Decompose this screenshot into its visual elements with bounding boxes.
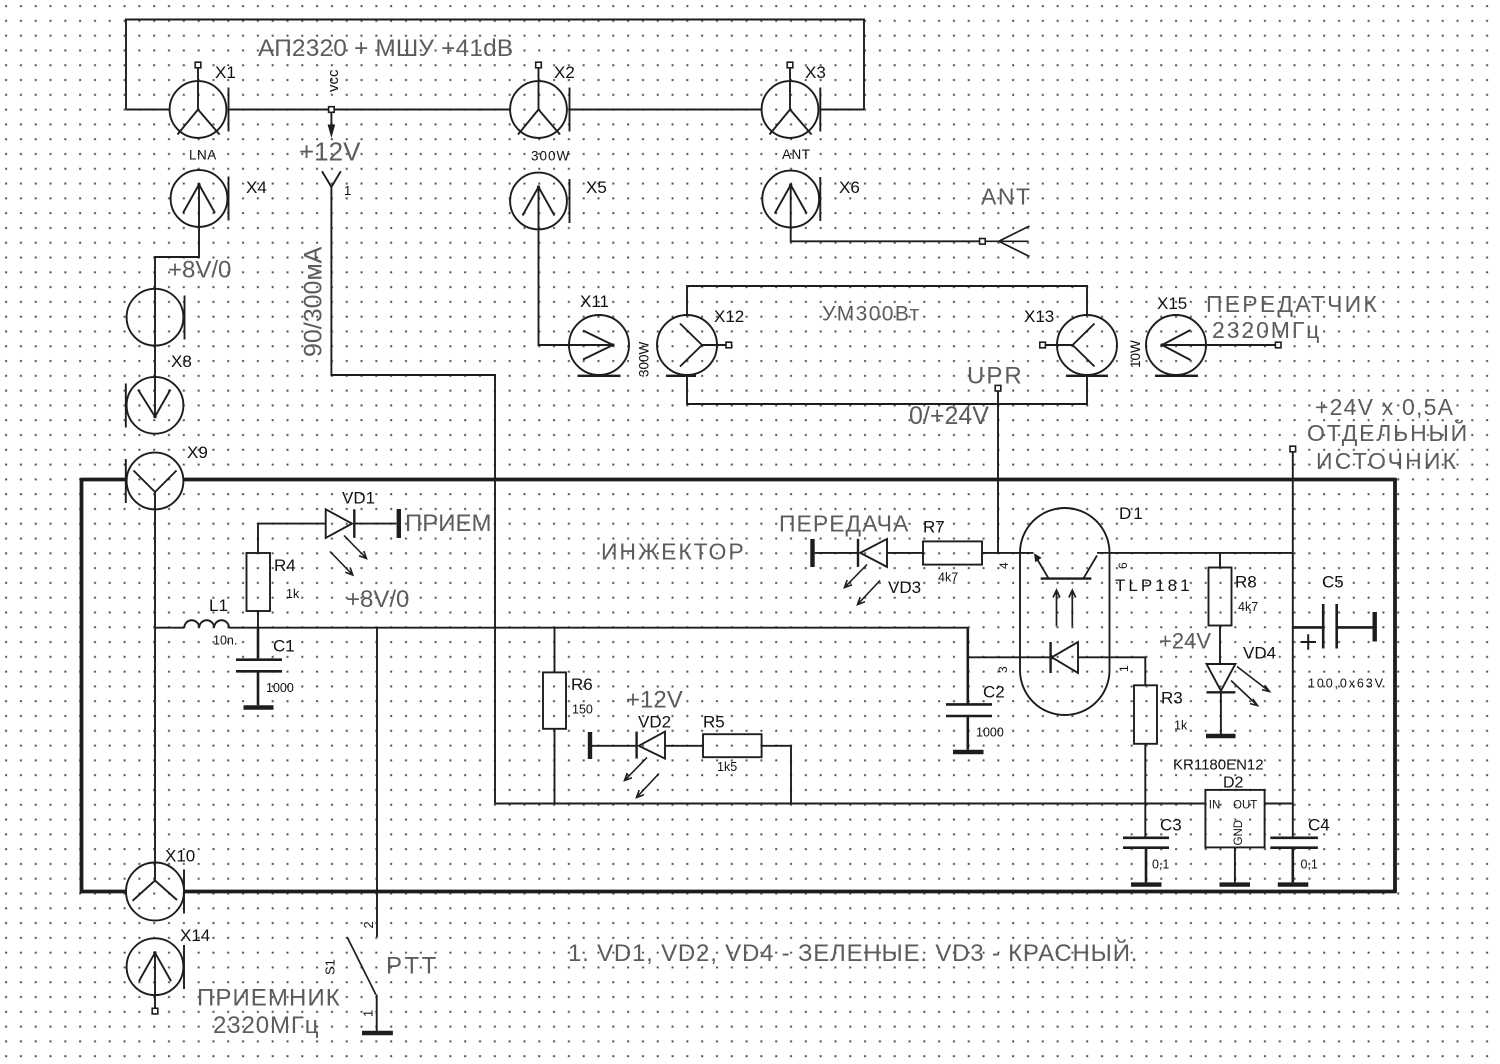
connector X4 <box>171 170 267 227</box>
svg-text:R3: R3 <box>1161 689 1183 708</box>
resistor R3 <box>1134 685 1188 744</box>
svg-text:10n.: 10n. <box>213 634 237 648</box>
amplifier box UM300 <box>687 286 1087 404</box>
svg-text:R4: R4 <box>274 556 296 575</box>
svg-text:C3: C3 <box>1160 816 1182 835</box>
main box injector <box>82 478 1396 894</box>
node 1 socket Y <box>322 171 351 200</box>
svg-text:VD3: VD3 <box>888 578 921 597</box>
connector X14 <box>127 926 211 1014</box>
diode VD1 <box>326 489 375 576</box>
svg-text:C4: C4 <box>1308 816 1330 835</box>
connector X8 <box>126 352 192 434</box>
svg-text:2320МГц: 2320МГц <box>213 1012 319 1039</box>
svg-text:X12: X12 <box>714 307 744 326</box>
svg-text:X4: X4 <box>246 178 267 197</box>
svg-text:2320МГц: 2320МГц <box>1212 317 1321 343</box>
svg-text:C5: C5 <box>1322 573 1344 592</box>
diode VD4 LED <box>1207 644 1277 735</box>
svg-text:0,1: 0,1 <box>1301 858 1318 872</box>
connector X10 <box>126 847 195 921</box>
svg-text:C1: C1 <box>273 637 295 656</box>
svg-text:1. VD1, VD2, VD4 - ЗЕЛЕНЫЕ. VD: 1. VD1, VD2, VD4 - ЗЕЛЕНЫЕ. VD3 - КРАСНЫ… <box>568 939 1138 967</box>
svg-text:ПРИЕМНИК: ПРИЕМНИК <box>197 985 341 1012</box>
svg-text:1: 1 <box>1117 665 1131 672</box>
svg-text:X6: X6 <box>839 178 860 197</box>
svg-text:X3: X3 <box>805 63 826 82</box>
switch S1 PTT <box>323 894 439 1032</box>
svg-text:X10: X10 <box>165 847 195 866</box>
svg-text:ИНЖЕКТОР: ИНЖЕКТОР <box>601 539 746 565</box>
capacitor C3 <box>1123 816 1182 883</box>
resistor R7 <box>923 518 982 585</box>
svg-text:R6: R6 <box>571 675 593 694</box>
connector X6 <box>762 171 859 228</box>
wire PTT tap <box>376 628 378 894</box>
diode VD3 <box>845 539 922 605</box>
wire <box>1110 552 1293 554</box>
svg-text:L1: L1 <box>209 596 228 615</box>
resistor R4 <box>247 553 300 611</box>
node +24V source label <box>1290 394 1469 474</box>
svg-text:X13: X13 <box>1024 307 1054 326</box>
svg-text:4k7: 4k7 <box>938 571 958 585</box>
wire <box>126 109 170 111</box>
connector X7 blank <box>127 289 185 346</box>
svg-text:LNA: LNA <box>189 148 217 163</box>
svg-text:300W: 300W <box>637 341 652 377</box>
connector X11 <box>569 292 652 377</box>
wire <box>258 524 396 552</box>
svg-text:1k: 1k <box>286 587 300 601</box>
svg-text:6: 6 <box>1116 562 1130 569</box>
svg-text:R8: R8 <box>1235 573 1257 592</box>
svg-text:X5: X5 <box>586 178 607 197</box>
svg-text:KR1180EN12: KR1180EN12 <box>1173 757 1264 774</box>
capacitor C1 <box>236 628 295 706</box>
svg-text:300W: 300W <box>531 149 570 164</box>
terminal PRIEM <box>399 509 492 538</box>
resistor R8 <box>1209 553 1259 664</box>
terminal PEREDACHA <box>779 511 909 568</box>
svg-text:X15: X15 <box>1157 294 1187 313</box>
connector X15 <box>1128 294 1281 376</box>
svg-text:X14: X14 <box>180 926 210 945</box>
wire <box>539 187 614 345</box>
wire <box>820 109 864 111</box>
resistor R6 <box>543 672 593 728</box>
wire top loop box <box>126 20 864 110</box>
wire <box>592 745 703 747</box>
connector X5 <box>510 173 607 230</box>
node VCC pin +12V arrow <box>299 69 361 167</box>
svg-text:VD4: VD4 <box>1243 644 1276 663</box>
wire <box>791 185 980 241</box>
svg-text:100,0x63V: 100,0x63V <box>1308 677 1385 691</box>
svg-text:+8V/0: +8V/0 <box>168 257 231 284</box>
node UPR <box>967 363 1024 392</box>
svg-text:TLP181: TLP181 <box>1115 576 1193 595</box>
wire <box>155 185 199 417</box>
connector X1 <box>170 62 236 162</box>
svg-text:+24V x 0,5A: +24V x 0,5A <box>1315 394 1454 420</box>
svg-text:ANT: ANT <box>981 184 1032 210</box>
svg-text:ПЕРЕДАТЧИК: ПЕРЕДАТЧИК <box>1206 291 1379 317</box>
capacitor C5 <box>1293 573 1385 691</box>
svg-text:90/300мА: 90/300мА <box>300 246 328 357</box>
svg-text:OUT: OUT <box>1233 800 1257 812</box>
wire <box>229 109 329 111</box>
svg-text:GND: GND <box>1233 820 1245 846</box>
ground <box>1206 734 1236 738</box>
svg-text:150: 150 <box>572 703 593 717</box>
wire UPR <box>997 391 999 553</box>
svg-text:+8V/0: +8V/0 <box>346 586 409 613</box>
svg-text:vcc: vcc <box>325 69 342 92</box>
wire bottom +12V <box>495 803 1205 805</box>
svg-text:4: 4 <box>997 562 1011 569</box>
svg-text:4k7: 4k7 <box>1238 600 1258 614</box>
svg-text:R5: R5 <box>703 713 725 732</box>
svg-text:ANT: ANT <box>782 147 811 162</box>
svg-text:S1: S1 <box>323 959 338 975</box>
svg-text:1000: 1000 <box>976 726 1004 740</box>
svg-text:1: 1 <box>344 183 351 198</box>
svg-text:X9: X9 <box>187 443 208 462</box>
svg-text:VD2: VD2 <box>638 713 671 732</box>
svg-text:УМ300Вт: УМ300Вт <box>822 303 921 326</box>
svg-text:+12V: +12V <box>299 137 361 167</box>
ground <box>362 1031 393 1035</box>
wire <box>334 109 511 111</box>
svg-text:C2: C2 <box>983 683 1005 702</box>
ground <box>1220 882 1251 886</box>
svg-text:VD1: VD1 <box>342 489 375 508</box>
svg-text:IN: IN <box>1209 800 1221 812</box>
wire <box>815 552 923 554</box>
ground <box>1278 882 1309 886</box>
svg-text:0/+24V: 0/+24V <box>909 402 989 430</box>
svg-text:ПЕРЕДАЧА: ПЕРЕДАЧА <box>779 511 909 537</box>
wire <box>554 628 556 804</box>
capacitor C2 <box>946 628 1005 750</box>
terminal C5 <box>1372 612 1376 642</box>
connector X3 <box>762 62 826 162</box>
capacitor C4 <box>1270 816 1329 883</box>
connector X13 <box>1024 307 1117 376</box>
svg-text:1k: 1k <box>1174 719 1188 733</box>
svg-text:ИСТОЧНИК: ИСТОЧНИК <box>1316 448 1458 474</box>
wire rail +8V <box>155 627 968 629</box>
svg-text:1k5: 1k5 <box>717 760 737 774</box>
wire <box>1144 744 1146 838</box>
svg-text:X11: X11 <box>580 292 609 311</box>
svg-text:X1: X1 <box>215 63 236 82</box>
resistor R5 <box>703 713 762 775</box>
connector X12 <box>657 307 744 376</box>
ground <box>244 705 274 709</box>
svg-text:3: 3 <box>996 666 1010 673</box>
wire <box>968 657 1146 685</box>
ground <box>953 750 984 754</box>
ground <box>1131 882 1162 886</box>
regulator D2 KR1180EN12 <box>1173 757 1265 883</box>
wire <box>982 552 1034 554</box>
svg-text:1000: 1000 <box>266 681 294 695</box>
svg-text:+12V: +12V <box>626 687 683 714</box>
svg-text:+24V: +24V <box>1159 629 1211 654</box>
svg-text:R7: R7 <box>923 518 945 537</box>
svg-text:X8: X8 <box>171 352 192 371</box>
wire <box>154 492 156 881</box>
svg-text:0,1: 0,1 <box>1152 858 1169 872</box>
connector X2 <box>510 62 575 163</box>
wire <box>762 746 791 804</box>
svg-text:ПРИЕМ: ПРИЕМ <box>405 510 492 537</box>
optocoupler D1 TLP181 <box>996 504 1193 715</box>
antenna ANT <box>980 184 1032 257</box>
wire 90/300mA feed <box>331 200 495 804</box>
wire <box>570 109 762 111</box>
svg-text:2: 2 <box>361 921 376 928</box>
wire <box>1265 803 1293 805</box>
svg-text:АП2320 + МШУ +41dB: АП2320 + МШУ +41dB <box>258 35 513 62</box>
svg-text:D1: D1 <box>1119 504 1145 523</box>
wire +24V rail <box>1292 452 1294 838</box>
diode VD2 <box>625 713 672 798</box>
svg-text:X2: X2 <box>554 63 575 82</box>
wire <box>257 611 259 628</box>
svg-text:1: 1 <box>361 1010 376 1017</box>
inductor L1 <box>184 596 237 648</box>
connector X9 <box>126 443 208 509</box>
svg-text:10W: 10W <box>1128 340 1143 368</box>
terminal VD2 <box>588 732 592 759</box>
svg-text:ОТДЕЛЬНЫЙ: ОТДЕЛЬНЫЙ <box>1307 419 1469 446</box>
svg-text:PTT: PTT <box>386 953 439 980</box>
svg-text:D2: D2 <box>1223 775 1244 792</box>
